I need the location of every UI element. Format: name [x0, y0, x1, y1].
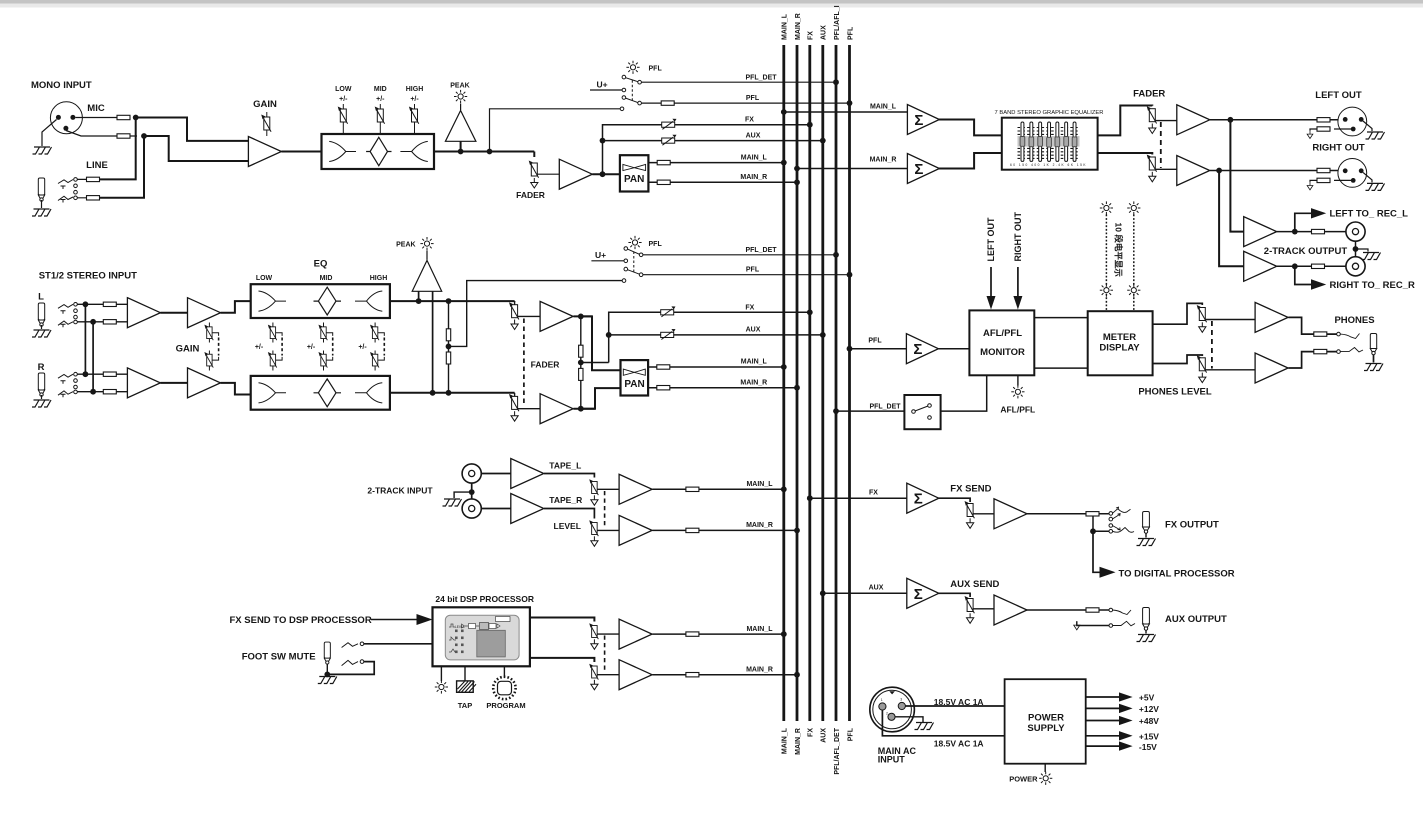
wire pfl tap up	[490, 109, 621, 152]
resistor tapeL	[686, 487, 699, 491]
node L tip	[83, 301, 89, 307]
wire master L wiper	[1155, 120, 1177, 122]
svg-text:FX: FX	[745, 304, 754, 311]
potentiometer level R	[589, 520, 598, 536]
wire rec R out	[1277, 265, 1346, 267]
svg-text:AUX: AUX	[869, 585, 884, 592]
potentiometer master fader R	[1147, 155, 1157, 172]
AFL/PFL MONITOR block	[969, 310, 1034, 375]
wire tapeL to pot	[544, 474, 594, 478]
potentiometer HIGH	[409, 107, 419, 124]
wire power lamp stem	[1044, 764, 1046, 772]
meter dashed line L	[1105, 215, 1107, 312]
wire -15V	[1086, 745, 1121, 747]
node mainL feed	[781, 109, 787, 115]
summing amp PFL	[906, 334, 938, 364]
op-amp rec L	[1244, 217, 1277, 247]
node post amp	[600, 171, 606, 177]
EQ R high symbol	[355, 383, 382, 403]
op-amp phones R	[1255, 353, 1288, 383]
wire master R wiper	[1155, 168, 1177, 170]
wire rec L branch	[1295, 213, 1311, 231]
svg-text:AUX SEND: AUX SEND	[950, 579, 999, 590]
master fader L gnd arrow	[1149, 124, 1156, 134]
svg-text:FX: FX	[808, 31, 815, 40]
wire fader wiper to amp	[537, 173, 559, 175]
ground AUX out	[1137, 635, 1156, 642]
resistor out R hot	[1317, 168, 1330, 172]
op-amp FX out	[994, 499, 1027, 529]
lever phones ring	[1340, 348, 1363, 352]
resistor dspL	[686, 632, 699, 636]
ST EQ ganged pots LOW	[273, 323, 282, 371]
svg-text:MAIN_R: MAIN_R	[795, 13, 802, 40]
summing amp FX	[907, 483, 939, 513]
potentiometer MID R	[318, 352, 327, 368]
node MAIN_L bus dsp	[781, 631, 787, 637]
svg-text:MAIN_R: MAIN_R	[746, 522, 773, 529]
node AUX feed	[820, 590, 826, 596]
resistor PFL	[661, 101, 674, 105]
op-amp ST L in	[127, 298, 160, 328]
dsp gang dashed	[604, 636, 606, 673]
wire rca out gnd	[1356, 249, 1369, 252]
wire PFL mono	[641, 102, 849, 104]
wire AC gnd	[895, 717, 923, 722]
wire R ring	[77, 391, 127, 393]
svg-text:METER: METER	[1103, 332, 1136, 343]
op-amp dsp L	[619, 619, 652, 649]
ground 2-track out	[1362, 253, 1381, 260]
POWER SUPPLY block	[1005, 679, 1086, 764]
wire pan MAIN_L ST	[648, 366, 784, 368]
wire fx amp out	[1026, 513, 1109, 515]
svg-text:MAIN_L: MAIN_L	[782, 727, 789, 754]
wire line plug ground	[41, 200, 43, 208]
wire amp out to pan	[592, 173, 620, 175]
node rec R	[1292, 263, 1298, 269]
node aux tap ST	[606, 332, 612, 338]
node master R	[1216, 168, 1222, 174]
svg-text:RIGHT OUT: RIGHT OUT	[1013, 212, 1023, 262]
node FX bus	[807, 122, 813, 128]
contact fx tip	[1109, 512, 1113, 516]
master fader R gnd arrow	[1149, 172, 1156, 182]
svg-text:+/-: +/-	[339, 96, 348, 103]
svg-text:FX: FX	[808, 728, 815, 737]
fsw contact tip	[360, 642, 364, 646]
wire tapeR main	[652, 529, 797, 531]
op-amp mono post-fader	[559, 159, 592, 189]
svg-text:FOOT SW MUTE: FOOT SW MUTE	[242, 652, 316, 663]
potentiometer FX send ST	[661, 306, 676, 317]
EQ block ST R	[251, 376, 390, 410]
DSP led matrix	[455, 630, 464, 654]
wire aux amp out	[1026, 609, 1109, 611]
wire to digital processor	[1093, 531, 1101, 572]
wire L plug gnd	[41, 325, 43, 329]
resistor sum 2	[579, 368, 583, 380]
svg-text:POWER: POWER	[1009, 774, 1038, 783]
arrow TO DIGITAL PROCESSOR	[1100, 567, 1116, 578]
peak comparator ST	[412, 251, 442, 292]
lamp PFL mono	[626, 61, 639, 74]
wire +48V	[1086, 720, 1121, 722]
wire EQ R out	[390, 392, 515, 394]
potentiometer GAIN	[261, 115, 271, 132]
graphic equalizer block	[1002, 118, 1098, 170]
svg-text:PFL/AFL_I: PFL/AFL_I	[834, 5, 841, 40]
summing amp AUX	[907, 578, 939, 608]
ground AC	[915, 723, 934, 730]
svg-text:1: 1	[881, 698, 883, 702]
ST EQ ganged pots MID	[324, 323, 333, 371]
wire rec L out	[1277, 231, 1346, 233]
wire PFL feed	[850, 348, 907, 350]
wire fx sum to pot	[938, 498, 970, 502]
wire rca gnd	[454, 492, 472, 498]
switch arm lower	[626, 98, 638, 103]
op-amp master L	[1177, 105, 1210, 135]
resistor MIC cold	[117, 134, 130, 138]
node PFL feed	[847, 346, 853, 352]
node fsw gnd	[324, 672, 330, 678]
svg-text:+/-: +/-	[376, 96, 385, 103]
lever aux ring	[1113, 621, 1135, 626]
wire pan MAIN_L	[648, 162, 783, 164]
arrow into DSP	[417, 614, 433, 625]
wire FX feed	[810, 497, 907, 499]
wire tapeR to pot	[544, 509, 594, 519]
RCA jack rec R	[1346, 257, 1365, 276]
wire master L out	[1210, 119, 1338, 121]
wire dspR main	[652, 674, 797, 676]
gain ganged pot pair	[209, 323, 218, 371]
bus PFL/AFL_DET	[835, 45, 838, 721]
level R gnd arrow	[591, 536, 598, 546]
lamp AFL/PFL	[1011, 385, 1024, 398]
wire rcaR to amp	[481, 508, 510, 510]
node AUX bus	[820, 138, 826, 144]
svg-text:MAIN_L: MAIN_L	[746, 481, 773, 488]
wire rec R riser	[1219, 171, 1244, 267]
wire peak to signal	[460, 141, 462, 151]
svg-text:TAPE_R: TAPE_R	[549, 495, 582, 505]
svg-text:U+: U+	[596, 79, 607, 89]
svg-text:PFL/AFL_DET: PFL/AFL_DET	[834, 727, 841, 774]
phones R gnd arrow	[1199, 373, 1206, 383]
gnd arrow xlr R	[1310, 180, 1317, 182]
wire R tip	[77, 373, 127, 375]
bus AUX	[821, 45, 824, 721]
node MAIN_L bus tape	[781, 486, 787, 492]
ST fader R stem	[514, 393, 516, 397]
resistor main_r ST	[657, 386, 670, 390]
svg-text:LOW: LOW	[256, 275, 273, 282]
node div bot	[446, 390, 452, 396]
ground 2-track	[443, 499, 462, 506]
switch arm upper ST	[628, 249, 640, 254]
EQ R low symbol	[259, 383, 287, 403]
potentiometer dsp L	[589, 623, 598, 639]
EQ low-shelf symbol	[329, 141, 356, 161]
potentiometer ST fader L	[509, 302, 519, 319]
fader L ground arrow	[511, 320, 518, 330]
wire EQ L out	[390, 300, 515, 302]
node L out	[578, 314, 584, 320]
ground xlr L	[1366, 132, 1385, 139]
wire dsp out R	[530, 658, 595, 662]
potentiometer LOW R	[268, 352, 277, 368]
svg-text:10 段电平显示: 10 段电平显示	[1114, 223, 1124, 278]
node aux tap	[600, 138, 606, 144]
svg-text:FX SEND TO DSP PROCESSOR: FX SEND TO DSP PROCESSOR	[230, 615, 372, 626]
svg-text:+/-: +/-	[307, 344, 316, 351]
switch arm lower ST	[628, 270, 640, 275]
jack socket R contacts	[58, 374, 73, 397]
wire fader R wiper	[518, 408, 541, 410]
node MAIN_R bus mono	[794, 179, 800, 185]
wire R into pan	[581, 388, 621, 409]
jack socket L contacts	[58, 304, 73, 327]
svg-text:2: 2	[886, 712, 888, 716]
wire L out	[573, 315, 592, 317]
resistor LINE tip	[87, 177, 100, 181]
svg-text:HIGH: HIGH	[406, 86, 424, 93]
switch arm upper	[626, 78, 638, 82]
wire phones R wiper	[1205, 369, 1255, 371]
svg-text:PHONES: PHONES	[1334, 315, 1374, 326]
svg-text:MIC: MIC	[87, 103, 105, 114]
EQ high-shelf symbol	[400, 141, 427, 161]
DSP inner graphics	[449, 617, 510, 653]
EQ L mid symbol	[314, 287, 342, 315]
svg-text:7 BAND STEREO GRAPHIC EQUALIZE: 7 BAND STEREO GRAPHIC EQUALIZER	[995, 110, 1104, 116]
wire aux sum to pot	[938, 593, 970, 597]
svg-text:PROGRAM: PROGRAM	[486, 701, 525, 710]
wire fsw tip to dsp	[364, 643, 433, 645]
node PFL bus ST	[847, 272, 853, 278]
svg-text:18.5V AC 1A: 18.5V AC 1A	[934, 697, 984, 707]
phones gang dashed	[1211, 321, 1213, 369]
node MAIN_R bus dsp	[794, 672, 800, 678]
node peak tap	[458, 149, 464, 155]
svg-text:MAIN_L: MAIN_L	[741, 154, 768, 161]
level gang dashed	[604, 491, 606, 528]
node peak R	[430, 390, 436, 396]
svg-text:2-TRACK OUTPUT: 2-TRACK OUTPUT	[1264, 246, 1348, 257]
wire MAIN_L feed	[784, 111, 908, 113]
switch gang dashed	[631, 80, 633, 101]
svg-text:LEVEL: LEVEL	[455, 625, 465, 629]
fader mono: wire down	[533, 152, 535, 158]
detect switch arm	[915, 406, 927, 411]
jack plug footswitch	[324, 642, 330, 664]
wire PFL_DET from bus	[836, 410, 904, 412]
wire levelL wiper	[597, 488, 619, 490]
node sum mid	[578, 360, 584, 366]
svg-text:AFL/PFL: AFL/PFL	[1000, 405, 1035, 415]
op-amp ST R gain	[188, 368, 221, 398]
ground MIC	[33, 147, 52, 154]
resistor div 1	[446, 329, 450, 341]
resistor rec R	[1312, 264, 1325, 268]
svg-text:AUX: AUX	[746, 327, 761, 334]
wire monitor-meter 2	[1034, 367, 1087, 369]
op-amp phones L	[1255, 302, 1288, 332]
XLR connector LEFT OUT	[1338, 107, 1367, 136]
resistor out L cold	[1317, 127, 1330, 131]
ST EQ ganged pots HIGH	[375, 323, 384, 371]
svg-text:+5V: +5V	[1139, 693, 1155, 703]
resistor main_r mono	[657, 180, 670, 184]
wire AC top	[905, 705, 1004, 707]
arrow right out down	[1017, 267, 1019, 297]
ground xlr R	[1366, 183, 1385, 190]
node mic L	[133, 115, 139, 121]
wire LINE ring	[77, 197, 97, 199]
node rca out gnd	[1353, 246, 1359, 252]
svg-text:PAN: PAN	[624, 379, 644, 390]
svg-text:POWER: POWER	[1028, 713, 1064, 724]
EQ R mid symbol	[314, 379, 342, 407]
svg-text:FX: FX	[745, 116, 754, 123]
ground LINE	[32, 209, 51, 216]
svg-text:EQ: EQ	[314, 259, 328, 270]
svg-text:U+: U+	[595, 250, 606, 260]
wire L ring	[77, 321, 127, 323]
node peak L	[416, 298, 422, 304]
svg-text:ST1/2 STEREO INPUT: ST1/2 STEREO INPUT	[39, 271, 137, 282]
resistor main_l mono	[657, 160, 670, 164]
DSP screen	[477, 630, 506, 657]
svg-text:2-TRACK INPUT: 2-TRACK INPUT	[367, 486, 433, 496]
wire GEQ R out	[1098, 153, 1153, 155]
DSP inner panel	[445, 615, 519, 660]
wire tapeL main	[652, 488, 783, 490]
wire dspR wiper	[597, 674, 619, 676]
resistor main_l ST	[657, 365, 670, 369]
ground L	[32, 330, 51, 337]
wire ST L gain out to EQ	[221, 301, 251, 313]
wire dsp in arrow	[371, 619, 417, 621]
svg-text:LEVEL: LEVEL	[554, 521, 581, 531]
jack socket LINE contacts	[58, 180, 73, 203]
PROGRAM knob	[493, 677, 515, 699]
switch gang dashed ST	[633, 252, 635, 273]
aux ring gnd arrow	[1074, 621, 1080, 630]
svg-text:MAIN_R: MAIN_R	[795, 728, 802, 755]
contact fx ring	[1109, 530, 1113, 534]
wire U+	[590, 89, 622, 91]
wire R interstage	[160, 382, 187, 384]
wire node to preamp -	[144, 136, 248, 161]
svg-text:DISPLAY: DISPLAY	[1099, 343, 1140, 354]
wire PFL_DET mono	[641, 81, 836, 83]
fsw contact ring lever	[342, 660, 358, 665]
svg-text:+48V: +48V	[1139, 716, 1159, 726]
arrow LEFT TO_REC_L	[1311, 208, 1326, 218]
wire U+ ST	[591, 260, 624, 262]
resistor rec L	[1312, 229, 1325, 233]
svg-text:PFL: PFL	[746, 267, 760, 274]
EQ block mono	[322, 134, 435, 169]
node div top	[446, 298, 452, 304]
svg-text:MAIN_R: MAIN_R	[740, 379, 767, 386]
wire xlrL pin1 gnd	[1363, 121, 1372, 131]
svg-text:MAIN_L: MAIN_L	[782, 13, 789, 40]
svg-text:L: L	[38, 292, 44, 303]
wire normalling L-R ring	[92, 322, 94, 392]
svg-text:LINE: LINE	[86, 160, 108, 171]
pan bowtie ST	[623, 369, 645, 375]
wire xlrR pin1 gnd	[1363, 172, 1372, 182]
wire ST R gain out to EQ	[221, 383, 251, 395]
resistor L tip	[103, 302, 116, 306]
op-amp ST R in	[127, 368, 160, 398]
pin numbers	[881, 698, 902, 716]
wire R plug gnd	[41, 395, 43, 399]
svg-text:+/-: +/-	[410, 96, 419, 103]
svg-text:LEFT OUT: LEFT OUT	[986, 217, 996, 261]
svg-text:MAIN_R: MAIN_R	[870, 156, 897, 163]
resistor AUX out	[1086, 608, 1099, 612]
wire fx/aux riser	[603, 125, 810, 175]
potentiometer LOW L	[268, 325, 277, 341]
wire fx wiper	[973, 513, 994, 515]
wire LINE ring to node	[100, 137, 145, 198]
op-amp tape L	[511, 459, 544, 489]
aux pot gnd arrow	[967, 613, 974, 623]
op-amp ST post R	[540, 394, 573, 424]
wire monitor lamp stem	[1017, 375, 1019, 385]
lever fx tip	[1113, 507, 1131, 513]
svg-text:AFL/PFL: AFL/PFL	[983, 328, 1022, 339]
GEQ scale dashes	[1018, 128, 1080, 159]
svg-text:GAIN: GAIN	[253, 99, 277, 110]
jack plug LINE	[38, 178, 44, 201]
wire peak tap L	[418, 291, 420, 301]
svg-text:PEAK: PEAK	[450, 83, 469, 90]
node PFL_DET bus	[833, 408, 839, 414]
wire L tip	[77, 303, 127, 305]
potentiometer ST fader R	[509, 394, 519, 411]
lamp POWER	[1039, 772, 1052, 785]
wire aux mono	[603, 140, 823, 142]
wire mid to riser	[581, 362, 609, 364]
bus MAIN_L	[782, 45, 785, 721]
svg-text:18.5V AC 1A: 18.5V AC 1A	[934, 739, 984, 749]
svg-text:LOW: LOW	[335, 86, 352, 93]
contact phones ring	[1337, 350, 1341, 354]
wire EQ out	[434, 151, 534, 153]
contact fx sw2	[1109, 524, 1113, 528]
jack plug AUX output	[1143, 608, 1150, 631]
ST fader L: stem	[514, 300, 516, 302]
jack plug L	[38, 303, 44, 326]
svg-text:HIGH: HIGH	[370, 275, 388, 282]
svg-text:MID: MID	[374, 86, 387, 93]
XLR connector MAIN AC	[870, 687, 915, 732]
EQ mid diamond symbol	[366, 137, 391, 165]
svg-text:PFL: PFL	[649, 66, 663, 73]
wire LINE tip to node	[100, 119, 136, 179]
wire HIGH pot stem	[414, 104, 416, 134]
svg-text:TAP: TAP	[458, 701, 472, 710]
jack plug FX output	[1143, 512, 1150, 534]
GEQ knobs	[1020, 137, 1077, 148]
potentiometer AUX send master	[965, 596, 975, 613]
